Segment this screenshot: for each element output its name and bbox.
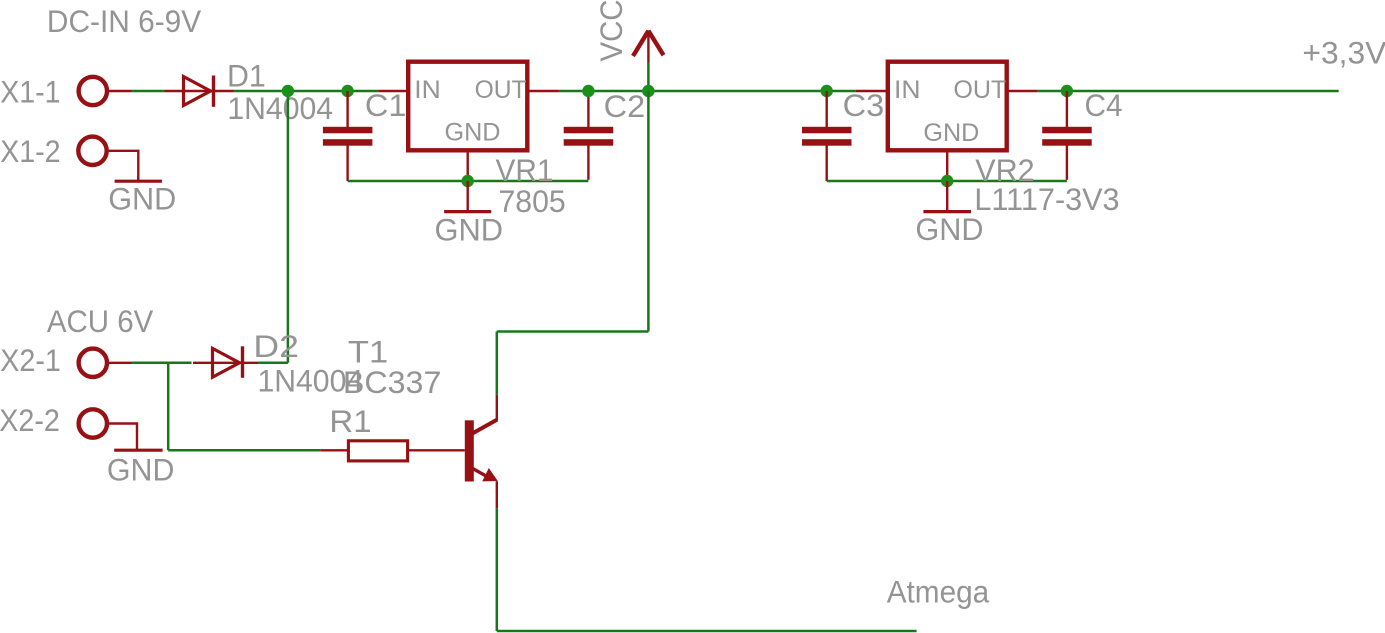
svg-text:DC-IN 6-9V: DC-IN 6-9V: [47, 3, 201, 39]
capacitor C1 top lead: [346, 91, 348, 127]
svg-text:Atmega: Atmega: [887, 574, 990, 610]
wire D2 cathode to node A drop: [258, 362, 288, 365]
svg-text:X1-1: X1-1: [0, 74, 60, 110]
svg-text:7805: 7805: [499, 183, 566, 219]
ground bar X1-2: [115, 180, 162, 183]
junction C2 at rail: [582, 85, 594, 97]
diode D1 triangle: [184, 77, 211, 106]
junction gnd bus VR1: [462, 175, 474, 187]
svg-text:OUT: OUT: [953, 76, 1006, 104]
capacitor C2 plates: [564, 127, 614, 134]
svg-text:L1117-3V3: L1117-3V3: [974, 181, 1119, 217]
wire X1-1 to D1: [132, 90, 165, 93]
wire X2-1 to D2: [132, 362, 192, 365]
svg-text:1N4004: 1N4004: [227, 90, 333, 126]
svg-text:GND: GND: [923, 119, 979, 147]
svg-text:C1: C1: [365, 87, 407, 123]
VR1 GND pin stub: [467, 152, 469, 181]
transistor T1 emitter arrowhead: [482, 468, 498, 481]
transistor T1 base bar: [465, 420, 474, 481]
capacitor C3 plates: [802, 127, 852, 134]
ground bar VR2: [923, 210, 971, 213]
supply arrow VCC left barb: [633, 31, 648, 56]
voltage regulator VR1 box: [408, 62, 527, 151]
svg-text:GND: GND: [108, 180, 176, 216]
supply arrow VCC right barb: [648, 31, 663, 55]
svg-text:ACU 6V: ACU 6V: [47, 303, 153, 339]
wire branch vertical: [167, 363, 170, 451]
diode D2 triangle: [213, 348, 240, 377]
capacitor C3 top lead: [826, 91, 828, 127]
svg-text:D1: D1: [227, 57, 266, 93]
VR2 OUT pin stub: [1008, 90, 1037, 92]
junction node A: [282, 85, 294, 97]
transistor T1 collector pin: [496, 395, 498, 421]
svg-text:X1-2: X1-2: [0, 133, 60, 169]
wire gnd bus under VR1: [348, 180, 589, 183]
connector pad X1-2: [78, 137, 106, 165]
svg-text:X2-2: X2-2: [0, 402, 60, 438]
VR2 IN pin stub: [856, 90, 887, 92]
pin stub X1-1: [107, 90, 131, 92]
junction C3 at rail: [821, 85, 833, 97]
junction gnd bus VR2: [941, 175, 953, 187]
svg-text:OUT: OUT: [475, 76, 527, 104]
VR1 IN pin stub: [378, 90, 407, 92]
connector pad X2-1: [79, 349, 107, 377]
wire rail VR1 to VR2: [559, 90, 856, 93]
svg-text:+3,3V: +3,3V: [1302, 34, 1385, 70]
junction C4 at rail: [1061, 85, 1073, 97]
wire horizontal to R1: [168, 449, 320, 452]
junction node B at C1: [341, 85, 353, 97]
pin stub X2-2 elbow to ground: [107, 424, 137, 451]
wire VCC node down: [647, 91, 650, 332]
capacitor C1 plates: [323, 127, 373, 134]
wire vertical node A down to D2: [287, 91, 290, 363]
wire gnd bus under VR2: [827, 180, 1067, 183]
svg-text:C2: C2: [604, 88, 646, 124]
ground bar X2-2: [114, 449, 162, 452]
capacitor C3 bottom lead: [826, 145, 828, 181]
voltage regulator VR2 box: [888, 62, 1007, 151]
pin stub X2-1: [107, 362, 131, 364]
capacitor C2 top lead: [587, 91, 589, 127]
diode D1 cathode bar: [212, 76, 215, 107]
svg-text:R1: R1: [329, 403, 371, 439]
resistor R1 box: [348, 441, 407, 461]
wire VCC stem green: [647, 63, 650, 92]
wire jog vertical to collector: [496, 332, 499, 395]
VCC arrow stem red: [647, 30, 649, 62]
diode D1 pin line: [165, 90, 234, 92]
svg-text:C3: C3: [843, 87, 885, 123]
svg-text:D2: D2: [253, 328, 299, 364]
diode D2 pin line: [193, 362, 262, 364]
capacitor C4 plates: [1042, 127, 1092, 134]
diode D2 cathode bar: [241, 346, 244, 378]
transistor T1 emitter diagonal: [473, 468, 491, 478]
svg-text:GND: GND: [915, 211, 983, 247]
VR2 GND pin stub: [946, 152, 948, 181]
capacitor C2 bottom lead: [587, 145, 589, 180]
svg-text:BC337: BC337: [343, 364, 442, 400]
wire rail VR2 to +3,3V: [1037, 90, 1338, 93]
capacitor C4 bottom lead: [1066, 145, 1068, 180]
capacitor C1 bottom lead: [346, 145, 348, 181]
transistor T1 collector diagonal: [473, 420, 498, 434]
VR2 gnd symbol lead: [946, 181, 948, 212]
transistor T1 emitter pin: [496, 481, 498, 508]
svg-text:VCC: VCC: [593, 0, 629, 62]
pin stub X1-2 elbow to ground: [107, 151, 138, 181]
VR1 OUT pin stub: [529, 90, 559, 92]
svg-text:GND: GND: [435, 212, 504, 248]
connector pad X1-1: [79, 77, 107, 105]
svg-text:GND: GND: [107, 452, 174, 488]
wire jog horizontal: [497, 330, 649, 333]
ground bar VR1: [444, 210, 491, 213]
wire emitter down: [496, 508, 499, 631]
svg-text:GND: GND: [445, 118, 501, 146]
svg-text:IN: IN: [414, 76, 441, 104]
VR1 gnd symbol lead: [467, 181, 469, 212]
R1 right pin to T1 base: [409, 449, 465, 451]
junction VCC node: [642, 85, 654, 97]
R1 left pin: [320, 449, 347, 451]
svg-text:X2-1: X2-1: [0, 342, 61, 378]
svg-text:IN: IN: [894, 76, 921, 104]
svg-text:C4: C4: [1085, 87, 1123, 123]
capacitor C4 top lead: [1066, 91, 1068, 127]
connector pad X2-2: [79, 409, 107, 437]
wire bottom to Atmega: [497, 630, 917, 633]
wire rail D1 to VR1: [234, 90, 379, 93]
